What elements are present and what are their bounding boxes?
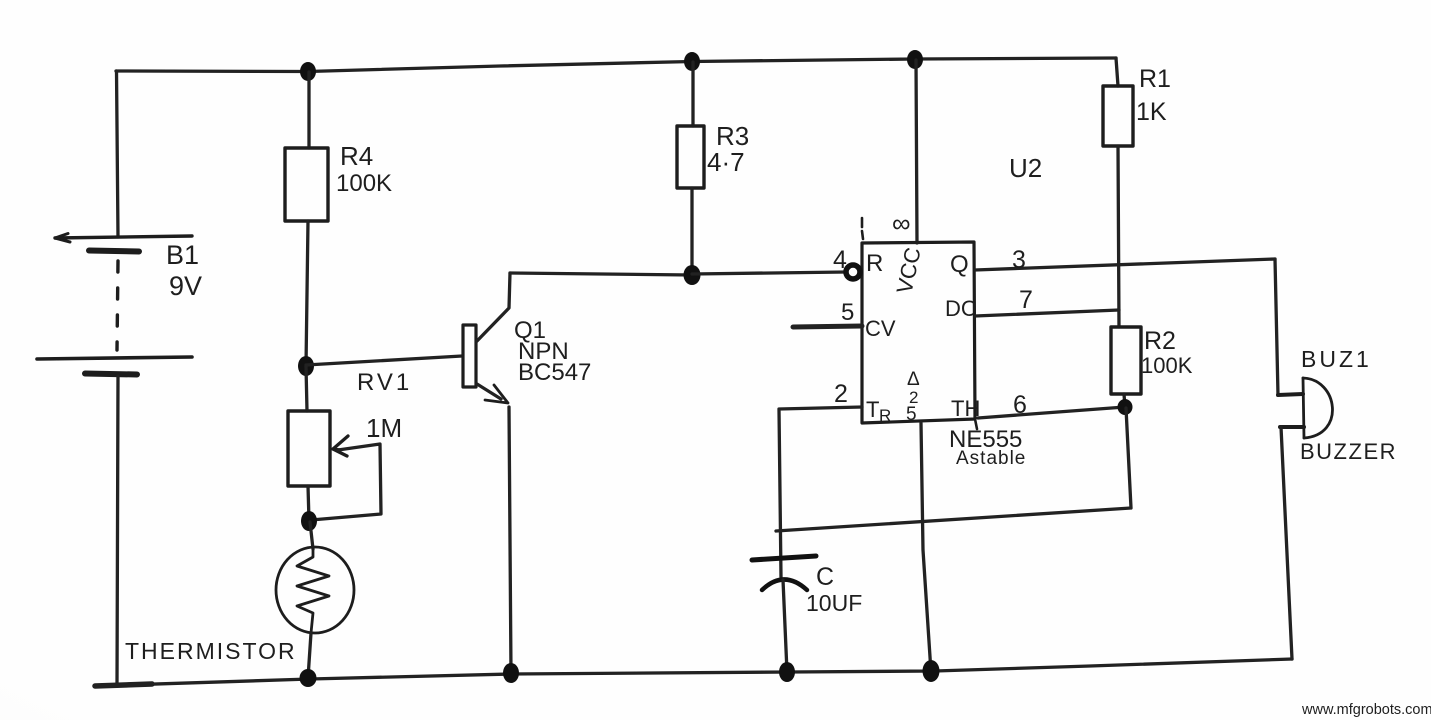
svg-text:BUZ1: BUZ1	[1301, 346, 1372, 372]
node junction thermistor / ground rail	[300, 669, 317, 687]
svg-text:1K: 1K	[1136, 98, 1167, 126]
wire threshold pin 6	[978, 407, 1125, 418]
battery B1	[37, 234, 192, 375]
pin 4 bubble	[846, 265, 860, 279]
buzzer BZ1 dome	[1303, 378, 1332, 438]
wire control pin 5 stub	[793, 326, 862, 327]
wire RV1 bottom lead	[308, 486, 309, 521]
svg-text:100K: 100K	[1141, 353, 1193, 378]
wire battery negative down to bottom rail	[117, 376, 118, 685]
svg-text:6: 6	[1013, 391, 1027, 419]
resistor R1	[1103, 86, 1133, 146]
svg-text:9V: 9V	[169, 271, 202, 301]
capacitor C curved plate	[762, 580, 807, 591]
svg-text:DC: DC	[945, 296, 977, 321]
svg-text:R: R	[879, 406, 891, 425]
wire left vertical from rail to battery	[117, 71, 119, 237]
svg-text:R: R	[866, 250, 883, 277]
wiper arrow of RV1	[333, 436, 348, 456]
svg-text:TH: TH	[951, 396, 980, 421]
wire VCC pin 8	[916, 60, 917, 243]
svg-text:C: C	[816, 563, 834, 591]
node junction top rail / R3	[684, 52, 700, 71]
pin 1 tick	[862, 218, 863, 239]
svg-text:THERMISTOR: THERMISTOR	[125, 638, 297, 664]
transistor Q1 collector	[477, 273, 510, 341]
svg-text:10UF: 10UF	[806, 590, 862, 616]
svg-text:RV1: RV1	[357, 369, 412, 396]
svg-text:T: T	[866, 397, 879, 422]
transistor Q1 emitter arrow	[485, 385, 508, 403]
resistor R3	[677, 126, 704, 188]
node junction R4 / RV1 / base	[298, 356, 314, 376]
wire thermistor bottom lead	[308, 633, 311, 678]
transistor Q1 emitter	[477, 384, 501, 399]
wire output pin 3	[975, 259, 1275, 270]
wire RV1 top lead	[306, 366, 307, 411]
node junction top rail / VCC wire	[907, 50, 923, 69]
potentiometer RV1	[288, 411, 330, 486]
svg-text:5: 5	[841, 299, 854, 326]
wire R4 bottom lead	[306, 221, 308, 366]
svg-text:4·7: 4·7	[707, 147, 745, 177]
svg-text:Astable: Astable	[956, 448, 1026, 469]
svg-text:CV: CV	[865, 316, 896, 341]
thermistor TH1 body	[276, 547, 354, 633]
node junction R3 / collector / pin4	[684, 265, 701, 285]
wire R3 top lead	[691, 62, 694, 126]
buzzer BZ1 bottom stub	[1280, 425, 1304, 429]
transistor Q1 base bar	[463, 325, 476, 387]
svg-text:Q: Q	[950, 251, 969, 278]
capacitor C top plate	[752, 556, 816, 560]
wire R1 top lead	[1116, 58, 1118, 86]
op-amp U1 555 IC body	[862, 242, 975, 423]
wire emitter down to ground rail	[509, 407, 511, 673]
wire top supply rail	[116, 58, 1116, 72]
resistor R2	[1111, 327, 1141, 394]
svg-text:4: 4	[833, 246, 847, 274]
svg-text:R1: R1	[1139, 65, 1171, 93]
svg-text:BC547: BC547	[518, 359, 591, 386]
svg-text:1M: 1M	[366, 413, 402, 443]
svg-text:Δ: Δ	[907, 369, 920, 390]
svg-text:www.mfgrobots.com: www.mfgrobots.com	[1301, 702, 1431, 718]
node junction gnd pin / rail	[923, 660, 940, 682]
svg-text:∞: ∞	[892, 208, 911, 238]
wire R2 bottom lead	[1124, 394, 1125, 407]
svg-text:B1: B1	[166, 240, 199, 270]
svg-text:U2: U2	[1009, 153, 1042, 183]
wire buzzer bottom to ground rail	[1281, 427, 1292, 659]
svg-text:R2: R2	[1144, 327, 1176, 355]
svg-text:BUZZER: BUZZER	[1300, 439, 1397, 464]
svg-text:100K: 100K	[336, 170, 392, 197]
thermistor zigzag element	[297, 549, 329, 633]
svg-text:5: 5	[906, 404, 917, 425]
svg-text:3: 3	[1012, 246, 1026, 274]
wire output down to buzzer	[1275, 259, 1278, 395]
resistor R4	[285, 148, 328, 221]
wire node to reset pin 4	[692, 272, 846, 274]
node junction top rail / R4	[300, 62, 316, 81]
wire ground pin 1 down	[921, 423, 931, 672]
wire base of Q1	[306, 356, 462, 365]
wire R1 bottom to R2 top	[1118, 146, 1119, 327]
wire discharge pin 7	[975, 310, 1119, 316]
node junction cap / ground rail	[779, 662, 795, 682]
wire trigger pin 2	[779, 407, 862, 577]
wire bottom ground rail	[95, 659, 1292, 686]
wire R4 top lead	[307, 72, 310, 148]
wire feedback down and across to pin2 line	[776, 408, 1131, 531]
wire collector to R3 node	[510, 273, 692, 275]
svg-text:7: 7	[1019, 286, 1033, 314]
svg-text:2: 2	[834, 380, 848, 408]
node junction RV1 bottom / wiper	[301, 511, 317, 531]
node junction emitter / ground rail	[503, 663, 519, 683]
IC right edge overshoot	[975, 419, 977, 429]
wire thermistor top lead	[310, 522, 313, 549]
node junction R2 / pin6 / feedback	[1118, 399, 1133, 415]
wire wiper loop to bottom of RV1	[311, 444, 381, 520]
svg-text:R4: R4	[340, 141, 373, 171]
wire R3 bottom lead	[690, 188, 693, 275]
wire capacitor bottom lead	[783, 580, 787, 672]
buzzer BZ1 top stub	[1278, 394, 1303, 395]
svg-text:VCC: VCC	[892, 245, 926, 296]
